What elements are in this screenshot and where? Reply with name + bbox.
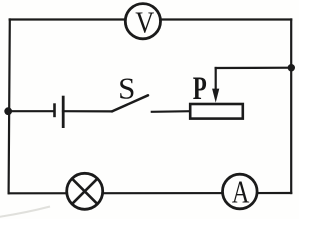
svg-text:V: V <box>135 4 155 39</box>
wire top <box>10 18 292 20</box>
junction node right <box>288 64 295 71</box>
wire battery branch left <box>8 110 54 112</box>
wire wiper feed <box>216 67 292 70</box>
lamp cross stroke 2 <box>72 179 97 204</box>
voltmeter U1 circle <box>125 4 160 39</box>
svg-text:P: P <box>193 71 207 107</box>
ammeter circle <box>223 174 258 209</box>
svg-text:S: S <box>118 71 135 106</box>
wire left <box>9 20 10 194</box>
lamp cross stroke 1 <box>72 179 97 204</box>
scan smudge artifact <box>0 207 50 218</box>
battery cell short plate <box>53 103 56 117</box>
switch S blade <box>112 95 148 111</box>
junction node left <box>4 107 12 115</box>
wire battery to switch <box>63 110 112 112</box>
rheostat P body <box>190 104 243 119</box>
svg-text:A: A <box>232 174 250 210</box>
wire switch to rheostat <box>152 110 190 113</box>
rheostat wiper arrowhead <box>212 89 219 103</box>
wire bottom <box>9 192 291 195</box>
wire wiper vertical <box>215 68 217 92</box>
wire right <box>290 20 292 194</box>
lamp circle <box>67 173 103 209</box>
battery cell long plate <box>62 96 65 128</box>
